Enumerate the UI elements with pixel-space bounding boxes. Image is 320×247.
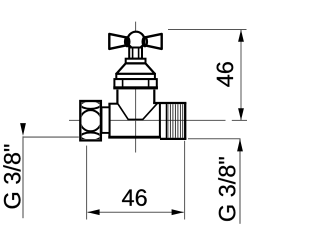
thread block bottom line <box>160 138 186 140</box>
handle left wing <box>109 34 127 49</box>
nut top chamfer ellipse <box>81 101 101 109</box>
hex facet line right <box>148 79 150 88</box>
upper body right edge <box>153 90 155 104</box>
vertical centerline of valve <box>135 22 137 153</box>
bonnet thin band <box>116 74 155 79</box>
bottom dim right arrow <box>172 209 184 215</box>
stem inner line right <box>138 49 140 59</box>
thread hatch lines <box>168 104 183 138</box>
right shoulder / thread top line <box>153 102 186 104</box>
right G3/8 arrow <box>237 139 243 152</box>
handle knob circle <box>128 32 145 49</box>
right boss arc <box>143 37 147 46</box>
body left edge <box>108 104 110 139</box>
bottom dim left arrow <box>87 209 99 215</box>
right dim top extension line <box>168 29 247 31</box>
handle right wing <box>144 34 162 49</box>
stem <box>129 48 142 59</box>
upper body left edge <box>116 90 118 105</box>
thread block right edge <box>184 103 186 139</box>
right dim top arrow <box>238 30 244 42</box>
funnel seat inside body <box>118 103 158 119</box>
bonnet hex nut band <box>114 79 156 88</box>
bottom dim extension line left <box>86 146 88 220</box>
stem inner line left <box>132 49 134 59</box>
right G3/8 leader line <box>239 139 241 224</box>
bonnet trapezoid <box>116 63 155 74</box>
hex nut thick bottom bar <box>113 86 158 89</box>
bottom dim text 46 <box>122 189 147 206</box>
right dim text 46 (rotated) <box>217 62 234 87</box>
left G3/8 leader line <box>22 136 24 218</box>
right port label G 3/8" (rotated) <box>218 157 235 221</box>
horizontal axis centerline right dash <box>232 119 247 121</box>
body bottom thick line <box>108 136 161 139</box>
right dim bottom arrow <box>238 108 244 120</box>
nut middle circle <box>80 110 101 131</box>
left nut rect <box>80 101 101 140</box>
left boss arc <box>125 37 129 46</box>
left collar <box>102 107 110 133</box>
nut bottom chamfer ellipse <box>81 133 101 141</box>
hex facet line left <box>122 79 124 88</box>
horizontal axis centerline <box>69 119 226 121</box>
thread collar separator <box>165 104 167 139</box>
right G3/8 reference line <box>188 138 241 140</box>
left port label G 3/8" (rotated) <box>3 145 20 209</box>
left G3/8 reference line <box>23 136 79 138</box>
bonnet top rect <box>126 59 146 64</box>
bottom dimension line <box>88 211 184 213</box>
left G3/8 arrow <box>20 123 26 136</box>
body right edge <box>159 103 161 137</box>
right dimension line <box>240 30 242 120</box>
left shoulder step <box>108 103 118 105</box>
bottom dim extension line right <box>184 141 186 220</box>
